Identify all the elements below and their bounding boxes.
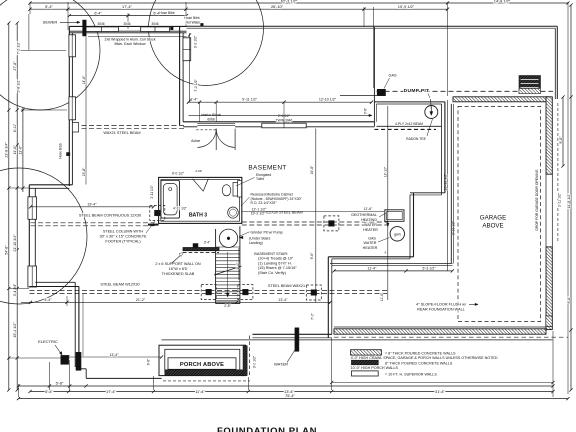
svg-text:5'-8 1/2": 5'-8 1/2": [17, 79, 21, 93]
wall: left vertical to porch: [74, 282, 76, 367]
wall: house right upper: [554, 28, 556, 99]
svg-text:4" SLOPE-FLOOR FLUSH w/: 4" SLOPE-FLOOR FLUSH w/: [416, 303, 467, 307]
svg-text:14'-6": 14'-6": [82, 75, 86, 84]
electric panel square: [61, 355, 69, 364]
steel column footer 4: [306, 285, 321, 300]
right dimension lines: [562, 97, 564, 166]
svg-text:(Nutone - 52WH004DPF) 24"X30": (Nutone - 52WH004DPF) 24"X30": [251, 197, 303, 201]
svg-text:2'-11 1/2": 2'-11 1/2": [150, 185, 154, 198]
wall: sump room west / upper strip divider: [373, 27, 375, 127]
svg-text:HEATER: HEATER: [363, 246, 378, 250]
svg-text:gwh: gwh: [394, 232, 401, 236]
stair treads: [216, 246, 240, 248]
svg-text:Hose Bibb: Hose Bibb: [59, 143, 63, 158]
svg-text:Recessed Medicine Cabinet: Recessed Medicine Cabinet: [251, 192, 293, 196]
svg-text:BASEMENT: BASEMENT: [248, 164, 286, 171]
svg-text:6'-4": 6'-4": [94, 12, 102, 16]
dim line to porch: [68, 356, 162, 358]
svg-text:9'-8": 9'-8": [559, 136, 563, 144]
svg-text:Hose Bibb: Hose Bibb: [159, 11, 174, 15]
svg-text:5'-8": 5'-8": [56, 381, 64, 386]
bath bottom wall thick: [148, 224, 159, 226]
wall: long north basement wall: [183, 121, 374, 123]
svg-text:5'-4": 5'-4": [44, 298, 52, 302]
svg-text:11'-4": 11'-4": [368, 266, 378, 270]
dim 11-6 mech: [242, 211, 384, 213]
svg-text:17'-4": 17'-4": [106, 389, 117, 394]
gas meter square: [377, 89, 385, 95]
garage right wall hatched lower: [546, 247, 552, 330]
svg-text:11'-6": 11'-6": [380, 292, 384, 301]
svg-text:DUMP PIT: DUMP PIT: [404, 88, 430, 94]
legend dark box 2: [352, 360, 379, 364]
beam W12X30 lower dashed: [30, 290, 388, 292]
svg-text:21'-10 3/4": 21'-10 3/4": [13, 234, 17, 252]
interior dim 14-6: [85, 37, 87, 185]
svg-text:15'-8": 15'-8": [82, 167, 86, 176]
svg-text:11'-6": 11'-6": [19, 145, 23, 155]
svg-text:Toilet: Toilet: [256, 177, 264, 181]
svg-text:(10+4) Treads @ 10": (10+4) Treads @ 10": [258, 257, 294, 261]
wall: sump room top: [374, 101, 445, 103]
svg-text:17'-4": 17'-4": [122, 4, 133, 9]
svg-text:W8X21 STEEL BEAM: W8X21 STEEL BEAM: [103, 131, 140, 135]
water marker bar: [295, 328, 299, 352]
svg-text:19'-4": 19'-4": [87, 202, 97, 206]
svg-text:WATER: WATER: [364, 223, 377, 227]
svg-text:BATH 3: BATH 3: [189, 212, 207, 218]
svg-text:9'-6": 9'-6": [310, 252, 314, 260]
south thin wall lines mech to garage: [330, 262, 453, 264]
beam continuous 12X30 mid-left dashed: [31, 222, 155, 224]
garage inner dashed footing: [458, 106, 541, 321]
window on left wall upper: [69, 35, 76, 57]
sink: [228, 207, 239, 218]
support wall hatched bar: [183, 248, 219, 251]
porch inner wall: [165, 349, 240, 371]
wall: sump room east: [441, 104, 443, 195]
svg-text:2'-8": 2'-8": [224, 304, 231, 308]
reference circle left-lower: [0, 168, 87, 304]
svg-text:FOOTER (TYPICAL): FOOTER (TYPICAL): [105, 239, 141, 243]
stair center line arrow: [227, 252, 229, 297]
dim line 19-4: [31, 206, 154, 208]
svg-text:(Under Stairs: (Under Stairs: [249, 236, 270, 240]
svg-text:2'-11 1/2": 2'-11 1/2": [558, 192, 562, 207]
svg-text:FOUNDATION PLAN: FOUNDATION PLAN: [217, 426, 317, 432]
svg-text:(Stair Co. Verify): (Stair Co. Verify): [258, 271, 287, 275]
svg-text:8'-11": 8'-11": [13, 123, 17, 132]
bathtub: [161, 180, 180, 218]
wall: lower-left bottom: [29, 286, 79, 288]
svg-text:STEEL BEAM W8X21: STEEL BEAM W8X21: [268, 284, 305, 288]
bath walls inner: [161, 180, 240, 222]
reference circle top-left: [0, 0, 100, 110]
garage top wall hatched: [453, 97, 549, 102]
wall: lower-left outer: [28, 185, 30, 287]
svg-text:11'-6": 11'-6": [364, 207, 373, 211]
wall: upper-left room top wall: [69, 25, 186, 27]
geothermal unit: [385, 210, 404, 222]
electric meter bar: [76, 352, 81, 370]
garage bottom corner hatch: [546, 316, 552, 327]
svg-text:16'-8": 16'-8": [310, 165, 314, 174]
svg-text:7'-2 1/2": 7'-2 1/2": [194, 79, 198, 92]
garage right wall hatched upper: [546, 97, 552, 175]
svg-text:30" x 30" x 15" CONCRETE: 30" x 30" x 15" CONCRETE: [99, 234, 147, 238]
svg-text:12'-10": 12'-10": [384, 166, 388, 177]
svg-text:Landing): Landing): [249, 241, 263, 245]
window lower-left wall 2: [28, 266, 37, 287]
svg-text:3046: 3046: [97, 22, 104, 26]
wall: upper-left room right wall: [179, 27, 181, 126]
svg-text:W12X30 STEEL BEAM: W12X30 STEEL BEAM: [263, 211, 302, 215]
svg-text:31'-4": 31'-4": [435, 389, 446, 394]
svg-text:Btwn. Each Window: Btwn. Each Window: [114, 42, 146, 46]
svg-text:6068: 6068: [207, 118, 215, 122]
svg-text:Hot Water: Hot Water: [186, 21, 202, 25]
svg-text:62'-3 1/2": 62'-3 1/2": [281, 0, 298, 3]
medicine cabinet recessed: [238, 181, 242, 198]
reference circle top-middle: [149, 0, 264, 86]
svg-text:R.O. 23-1/4"X29": R.O. 23-1/4"X29": [251, 201, 278, 205]
svg-text:9'-11 1/2": 9'-11 1/2": [242, 97, 258, 101]
wall: house top: [187, 25, 558, 27]
line left of gas: [340, 95, 377, 97]
wall: mech west: [327, 257, 329, 338]
windows top wall group 2: [141, 27, 170, 32]
svg-text:5'-4": 5'-4": [45, 4, 53, 9]
svg-text:RADON TEE: RADON TEE: [406, 137, 426, 141]
svg-text:14'-8 1/2": 14'-8 1/2": [567, 193, 571, 209]
svg-text:7'-2 1/2": 7'-2 1/2": [17, 41, 21, 55]
svg-text:8" THICK POURED CONCRETE WALLS: 8" THICK POURED CONCRETE WALLS: [385, 362, 453, 366]
svg-text:54'-8": 54'-8": [5, 245, 9, 255]
porch right hatched edge: [243, 346, 247, 376]
left dimension lines: [8, 23, 10, 390]
svg-text:4'-0" HIGH CRAWL SPACE, GARAGE: 4'-0" HIGH CRAWL SPACE, GARAGE & PORCH W…: [351, 356, 498, 360]
stair shaft: [215, 229, 217, 304]
window on right wall: [183, 38, 191, 61]
svg-text:= 10 FT. H. SUPERIOR WALLS: = 10 FT. H. SUPERIOR WALLS: [385, 372, 437, 376]
svg-text:STEEL BEAM CONTINUOUS 12X30: STEEL BEAM CONTINUOUS 12X30: [79, 213, 141, 217]
sump pit circle: [425, 106, 438, 119]
svg-text:2-08: 2-08: [195, 169, 201, 173]
svg-text:6'-0 1/2": 6'-0 1/2": [172, 172, 185, 176]
bottom dimension line 2: [30, 391, 553, 393]
svg-text:21'-2": 21'-2": [136, 298, 146, 302]
svg-text:75'-4": 75'-4": [285, 393, 296, 398]
wall: step top: [410, 192, 445, 194]
wall: jog left: [29, 184, 72, 186]
svg-text:(1) Landing 67½" H.: (1) Landing 67½" H.: [258, 261, 292, 265]
svg-text:1'-4": 1'-4": [190, 97, 198, 101]
svg-text:THICKENED SLAB: THICKENED SLAB: [162, 272, 195, 276]
wall: mech south: [328, 256, 413, 258]
svg-text:REAR FOUNDATION WALL: REAR FOUNDATION WALL: [417, 308, 465, 312]
bottom dimension line 3: [19, 398, 569, 400]
hose bibb mark left wall: [67, 153, 70, 156]
svg-text:3'-2 1/2": 3'-2 1/2": [194, 35, 198, 48]
svg-text:GEOTHERMAL: GEOTHERMAL: [351, 213, 377, 217]
svg-text:WATER: WATER: [364, 241, 377, 245]
svg-text:PORCH ABOVE: PORCH ABOVE: [180, 362, 224, 368]
svg-text:7'-0": 7'-0": [311, 312, 315, 320]
svg-text:GAS: GAS: [388, 74, 396, 78]
svg-text:27'-8": 27'-8": [13, 61, 17, 71]
svg-text:= 8" THICK POURED CONCRETE WAL: = 8" THICK POURED CONCRETE WALLS: [385, 351, 456, 355]
svg-text:Hose Bibb: Hose Bibb: [184, 16, 199, 20]
svg-text:9'-8": 9'-8": [567, 296, 571, 304]
svg-text:GAS: GAS: [368, 236, 376, 240]
steel column footer 3: [238, 285, 253, 300]
legend hatched box 1: [351, 350, 382, 355]
svg-text:4-PLY 2x12 BEAM: 4-PLY 2x12 BEAM: [395, 122, 423, 126]
svg-text:Active: Active: [191, 139, 200, 143]
dashed deck line upper strip: [377, 90, 520, 92]
svg-text:21'-8 3/4": 21'-8 3/4": [5, 142, 9, 158]
svg-text:SEWER: SEWER: [43, 20, 58, 25]
svg-text:10'-9 1/2": 10'-9 1/2": [398, 4, 415, 9]
svg-text:13'-4": 13'-4": [109, 353, 119, 357]
svg-text:2x6 Wrapped in Alum. Coil Stoc: 2x6 Wrapped in Alum. Coil Stock: [105, 37, 156, 41]
vertical dim x387: [387, 106, 389, 300]
left dim extension arrows: [21, 50, 66, 52]
wall: south mid run: [253, 333, 333, 335]
garage bottom wall hatched: [334, 326, 546, 328]
windows top wall group 1: [85, 27, 119, 32]
top dimension line 3: [69, 15, 186, 17]
dim line y271: [334, 270, 452, 272]
garage left boundary: [450, 104, 452, 264]
dim line y115: [189, 114, 372, 116]
steel column footer 2: [201, 285, 216, 300]
svg-text:4'-11 1/2": 4'-11 1/2": [173, 206, 187, 210]
svg-text:HEATING: HEATING: [361, 218, 377, 222]
top dimension line 1 overall: [30, 2, 568, 4]
svg-text:3046: 3046: [151, 22, 158, 26]
svg-text:ABOVE: ABOVE: [482, 223, 503, 230]
dim line y382.5 right: [332, 382, 553, 384]
detail block top right: [519, 76, 541, 94]
beam W12X30 mid-right dashed: [242, 221, 388, 223]
porch label box: [168, 358, 236, 370]
svg-text:3'-0 1/2": 3'-0 1/2": [253, 355, 257, 368]
svg-text:19'-2 1/2": 19'-2 1/2": [251, 212, 267, 216]
svg-text:13'-4": 13'-4": [278, 298, 288, 302]
svg-text:(15) Risers @ 7-15/16": (15) Risers @ 7-15/16": [258, 266, 297, 270]
svg-text:26'-10": 26'-10": [271, 4, 284, 9]
svg-text:STEEL COLUMN WITH: STEEL COLUMN WITH: [103, 229, 143, 233]
wall: mech east: [409, 195, 411, 259]
dim line y102: [189, 101, 372, 103]
window lower-left wall 1: [28, 197, 37, 220]
svg-text:3'-4 3/4": 3'-4 3/4": [13, 283, 17, 296]
porch outer wall: [159, 345, 246, 375]
svg-text:GARAGE: GARAGE: [480, 215, 506, 222]
svg-text:ELECTRIC: ELECTRIC: [38, 339, 58, 344]
svg-text:HEATER: HEATER: [363, 228, 378, 232]
beam W8X21 upper-left dashed: [74, 125, 187, 127]
porch south dark band: [165, 370, 243, 376]
svg-text:DROP FOR GARAGE DOOR OPENING: DROP FOR GARAGE DOOR OPENING: [535, 169, 539, 230]
notch at beam bearing: [72, 123, 78, 133]
twin window 3046: [262, 123, 306, 128]
svg-text:BASEMENT STAIR:: BASEMENT STAIR:: [254, 252, 288, 256]
wall: upper-left room left wall: [68, 26, 70, 186]
top dimension line 2: [30, 8, 448, 10]
svg-text:11'-6": 11'-6": [13, 145, 17, 155]
svg-text:14'-8 1/2": 14'-8 1/2": [494, 0, 511, 3]
garage right wall door section: [546, 174, 552, 247]
toilet: [222, 185, 231, 196]
sewer pipe bar: [83, 20, 87, 36]
bath door V: [193, 179, 204, 191]
grinder pit circle: [219, 229, 237, 247]
double door active arcs: [197, 129, 216, 148]
svg-text:9'-0": 9'-0": [236, 262, 240, 270]
svg-text:12'-10 1/2": 12'-10 1/2": [319, 97, 337, 101]
wall: south west run low: [79, 368, 86, 370]
dim extension lines top: [29, 2, 31, 14]
patio door 6068: [197, 122, 235, 124]
gas water heater circle: [390, 227, 404, 241]
svg-text:10'-0" HIGH PORCH WALLS: 10'-0" HIGH PORCH WALLS: [351, 366, 399, 370]
svg-text:3'-8": 3'-8": [364, 108, 368, 114]
porch footing dashed: [163, 380, 250, 382]
steel column footer 5: [324, 216, 339, 231]
vertical dim x199: [189, 33, 191, 101]
svg-text:Grinder Pit w/ Pump: Grinder Pit w/ Pump: [251, 230, 283, 234]
steel column footer 1: [150, 206, 165, 221]
legend white box 3: [352, 371, 379, 376]
vertical extension line mid: [315, 129, 317, 303]
bottom dim extension lines: [552, 331, 554, 397]
svg-text:STEEL BEAM W12X30: STEEL BEAM W12X30: [100, 283, 139, 287]
svg-text:2 x 6 SUPPORT WALL ON: 2 x 6 SUPPORT WALL ON: [155, 262, 201, 266]
dim line y302: [21, 301, 330, 303]
beam 4-ply 2x12 dashed: [377, 125, 442, 127]
garage side dim lines: [446, 100, 448, 271]
stair break line: [214, 266, 242, 275]
svg-text:WATER: WATER: [274, 361, 288, 366]
svg-text:3046: 3046: [123, 22, 130, 26]
bath walls outer: [159, 177, 242, 223]
svg-text:3'-4": 3'-4": [204, 241, 211, 245]
svg-text:11'-4": 11'-4": [195, 389, 205, 394]
svg-text:5'-3 1/2": 5'-3 1/2": [422, 266, 436, 270]
svg-text:16"W x 8'D: 16"W x 8'D: [169, 267, 188, 271]
porch right dashed: [249, 336, 251, 378]
window on left wall lower: [69, 97, 76, 120]
svg-text:2'-6 1/2": 2'-6 1/2": [278, 114, 291, 118]
svg-text:15'-4 1/2": 15'-4 1/2": [13, 322, 17, 338]
bottom dimension line 1: [19, 385, 554, 387]
svg-text:9'-6": 9'-6": [147, 358, 151, 366]
